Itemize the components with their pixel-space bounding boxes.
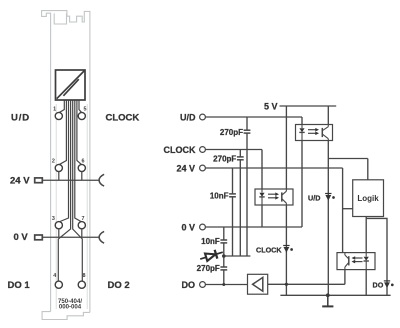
Logik block [353,180,384,217]
svg-text:7: 7 [82,216,85,222]
svg-text:5 V: 5 V [264,101,278,111]
svg-text:000-004: 000-004 [59,304,82,311]
left plug square row2 [35,178,43,183]
module top-right profile and right edge [67,11,90,312]
module bottom foot [42,312,90,320]
svg-text:8: 8 [83,273,86,279]
signal tag DO arrow [384,281,394,288]
schematic labels [164,101,384,289]
suppressor diode D1 (diagonal) [199,248,224,264]
svg-text:4: 4 [53,273,56,279]
capacitor C1 270pF upper lead [246,117,248,130]
module order number [58,298,82,311]
capacitor C1 lower lead [246,133,248,256]
wire 24V horizontal [205,167,342,169]
svg-text:0 V: 0 V [14,232,29,243]
wire CLOCK down to opto U2 [261,150,263,190]
isolation symbol (square with diagonal) [56,70,86,100]
capacitor C5 270pF upper lead [223,256,225,267]
wire 24V down right side [342,168,344,253]
opto-coupler U2 [255,189,293,205]
U3 light arrows pointing left [355,257,363,259]
wire driver output to opto U3 [268,283,345,285]
wire U/D horizontal [205,116,302,118]
wire opto U1 LED cathode to 0V [301,141,303,228]
left plug square row3 [35,235,43,240]
wire to terminal 8 [73,101,83,282]
capacitor C5 lower lead [223,270,225,285]
capacitor C4 plates [220,239,227,241]
wire 5V drop to opto U2 collector [285,106,287,189]
module inner channel lines [55,104,57,309]
terminal 5 [78,112,85,119]
wire Logik output right [366,218,387,295]
terminal 1 [55,112,62,119]
wire DO horizontal to driver [205,284,247,286]
U1 LED [301,125,303,129]
wire to terminal 1 [59,101,65,113]
svg-text:270pF: 270pF [197,264,220,273]
row 2 power feed line (24V) [35,172,104,187]
wire down into Logik top [367,159,369,180]
wire opto U2 emitter vertical [285,205,287,295]
terminal CLOCK [200,147,206,153]
svg-text:5: 5 [84,107,87,113]
U1 phototransistor [321,128,323,137]
svg-text:270pF: 270pF [213,155,236,164]
U2 light arrows [268,193,276,195]
svg-text:10nF: 10nF [201,237,220,246]
terminal circles [55,112,85,288]
svg-text:Logik: Logik [357,194,379,203]
junction node opto U2 emitter / DO line [285,283,288,286]
svg-text:DO 1: DO 1 [8,280,31,291]
wire to terminal 2 [59,101,67,165]
wire bundle [58,101,82,282]
svg-text:U/D: U/D [180,112,196,122]
U3 phototransistor [348,256,350,265]
wire tee to Logik top [328,158,368,160]
wire 5V drop to opto U1 collector [327,106,329,125]
wire to terminal 4 [58,101,70,282]
svg-text:0 V: 0 V [181,222,195,232]
U2 phototransistor [281,192,283,201]
right clamp arc row2 [99,174,104,186]
wire 5V rail [280,105,337,107]
svg-text:2: 2 [52,159,55,165]
junction node DO cap chain [222,283,225,286]
svg-text:U/D: U/D [11,113,30,124]
cap common bus [224,255,251,257]
opto-coupler U3 (mirrored) [337,253,375,270]
capacitor C5 plates [220,266,227,268]
terminal 6 [78,164,85,171]
svg-text:CLOCK: CLOCK [256,245,282,254]
capacitor C3 plates [229,193,236,195]
right clamp arc row3 [99,231,104,243]
U1 light arrows [308,129,316,131]
module signal labels [8,113,140,292]
wire 24V tee into Logik left [343,208,353,210]
row 3 power feed line (0V) [35,229,104,243]
wire CLOCK horizontal [205,149,262,151]
ground bus [280,294,390,296]
U2 LED [261,189,263,193]
output driver A1 (triangle buffer) [248,274,268,294]
terminal 3 [55,222,62,229]
svg-text:DO: DO [373,280,384,289]
wire to terminal 3 [59,101,69,223]
svg-text:24 V: 24 V [176,163,195,173]
ground symbol [322,295,333,306]
capacitor C4 10nF upper lead [223,227,225,240]
wire to terminal 7 [75,101,82,223]
terminal 4 [55,281,62,288]
svg-text:CLOCK: CLOCK [106,113,140,124]
junction node caps/diode [222,254,226,258]
svg-text:DO: DO [182,280,196,290]
svg-text:CLOCK: CLOCK [164,145,196,155]
ground junction node [326,293,330,297]
wire opto U3 LED cathode to bus [365,270,367,296]
svg-text:DO 2: DO 2 [108,280,130,291]
wire 0V horizontal [205,226,302,228]
capacitor C2 plates [237,156,244,158]
signal tag CLOCK arrow [283,246,293,253]
svg-text:270pF: 270pF [220,128,243,137]
terminal DO [200,282,206,288]
wire up into opto U3 emitter [344,270,346,285]
wire opto U1 emitter long vertical [327,141,329,296]
svg-text:6: 6 [82,159,85,165]
svg-text:1: 1 [53,107,56,113]
wire to terminal 6 [77,101,82,165]
svg-text:3: 3 [52,216,55,222]
terminal 0V [200,224,206,230]
capacitor C4 lower lead [223,243,225,256]
wire opto U2 LED cathode to 0V [261,205,263,227]
terminal 24V [200,165,206,171]
terminal 2 [55,164,62,171]
terminal 7 [78,222,85,229]
opto-coupler U1 [296,125,333,141]
module outline top-left hook and left edge [42,11,67,312]
signal tag U/D arrow [325,194,335,201]
svg-text:24 V: 24 V [10,176,30,187]
module top notch under bar [54,13,66,24]
capacitor C2 lower lead [239,160,241,256]
terminal numbers [52,107,87,279]
wire to terminal 5 [79,101,82,113]
svg-text:U/D: U/D [308,193,320,202]
wire U/D down to opto U1 [301,117,303,125]
capacitor C1 plates [244,129,251,131]
U3 LED [365,253,367,257]
svg-text:10nF: 10nF [210,192,229,201]
wire Logik bottom to opto U3 LED anode [365,217,367,253]
terminal 8 [78,281,85,288]
terminal U/D [200,114,206,120]
capacitor C3 10nF upper lead [232,168,234,194]
capacitor C2 270pF upper lead [239,150,241,157]
capacitor C3 lower lead [232,197,234,256]
